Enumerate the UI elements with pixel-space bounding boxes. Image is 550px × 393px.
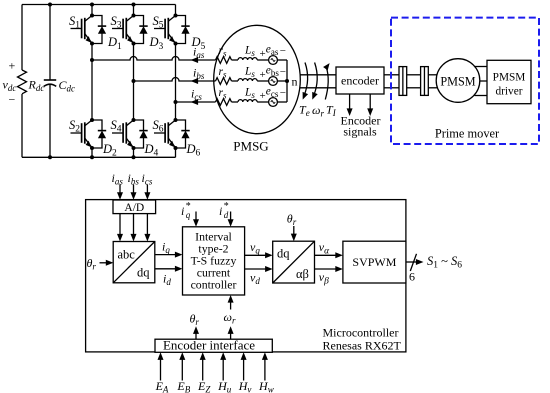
source e_as [260, 44, 287, 65]
signal i_q to controller [155, 240, 183, 258]
svg-text:+: + [260, 48, 266, 60]
box interval type-2 T-S fuzzy current controller [183, 227, 245, 295]
node leg 1 bottom rail junction [90, 155, 94, 159]
svg-text:−: − [280, 66, 286, 78]
svg-text:Prime mover: Prime mover [435, 127, 500, 141]
encoder box [336, 67, 384, 94]
svg-text:encoder: encoder [341, 74, 379, 88]
inductor L_s phase b [238, 66, 257, 81]
signal omega_r from encoder interface to controller [224, 295, 236, 339]
node emitter junction of S1 [90, 42, 94, 46]
signal i_d to controller [155, 266, 183, 287]
wire shaft encoder to coupling [384, 75, 399, 88]
signal i_d reference arrow [219, 201, 234, 227]
svg-text:+: + [9, 59, 16, 73]
node emitter junction of S2 [90, 146, 94, 150]
node emitter junction of S5 [174, 42, 178, 46]
wire encoder signal line 2 [367, 94, 373, 116]
transistor S6 [153, 118, 176, 147]
svg-text:controller: controller [191, 277, 237, 291]
resistor r_s phase a [216, 45, 232, 63]
svg-text:abc: abc [118, 248, 136, 262]
source e_bs [260, 65, 287, 86]
signal H_w encoder input [258, 352, 274, 393]
diode D5 [176, 16, 206, 52]
box Encoder interface [155, 338, 272, 353]
node collector junction of S1 [90, 14, 94, 18]
wire PMSM to driver middle [480, 80, 488, 82]
rotation arc load torque T_l [323, 63, 337, 118]
wire PMSM to driver upper [475, 66, 487, 68]
svg-text:+: + [260, 69, 266, 81]
wire shaft between couplings [407, 75, 421, 88]
wire dc top rail [22, 4, 176, 6]
wire A/D to abc-dq at x=133.5 [131, 214, 137, 242]
node leg 2 bottom rail junction [132, 155, 136, 159]
rotation arc speed omega_r [312, 63, 324, 119]
diode D1 [92, 16, 122, 52]
generator PMSG stator boundary [214, 25, 301, 153]
resistor r_s phase c [216, 87, 232, 105]
signal i_q reference arrow [181, 201, 199, 227]
svg-text:dq: dq [277, 247, 290, 261]
svg-text:PMSG: PMSG [233, 139, 268, 154]
wire PMSM to driver lower [474, 95, 487, 97]
voltage label v_dc with polarity [3, 59, 17, 107]
wire L_s to source phase c [257, 101, 269, 103]
svg-text:PMSM: PMSM [440, 74, 475, 88]
svg-text:signals: signals [343, 125, 377, 139]
resistor R_dc [18, 5, 45, 158]
current arrow i_as [191, 45, 205, 64]
signal v_alpha to SVPWM [315, 240, 343, 258]
wire neutral bus [286, 60, 288, 102]
wire phase b output line [134, 78, 216, 81]
wire source to neutral bus phase b [277, 80, 287, 82]
signal i_bs input arrow [128, 171, 140, 200]
wire dc bottom rail [22, 156, 176, 158]
diode D2 [92, 120, 117, 159]
svg-text:SVPWM: SVPWM [352, 255, 396, 269]
signal E_A encoder input [155, 352, 169, 393]
svg-text:*: * [186, 201, 191, 212]
node collector junction of S2 [90, 118, 94, 122]
box SVPWM [343, 241, 406, 283]
wire A/D to abc-dq at x=147.4 [144, 214, 150, 242]
node collector junction of S4 [132, 118, 136, 122]
transistor S5 [153, 14, 176, 43]
wire r_s to L_s phase a [232, 59, 239, 61]
node emitter junction of S6 [174, 146, 178, 150]
svg-text:+: + [260, 90, 266, 102]
svg-text:6: 6 [409, 270, 415, 284]
node n neutral [285, 75, 298, 89]
transistor S2 [69, 118, 92, 147]
signal i_cs input arrow [142, 171, 153, 200]
current arrow i_bs [191, 66, 205, 85]
wire source to neutral bus phase c [277, 101, 287, 103]
box PMSM driver [487, 60, 531, 103]
svg-text:n: n [292, 75, 298, 89]
wire source to neutral bus phase a [277, 59, 287, 61]
svg-text:driver: driver [496, 86, 523, 98]
current arrow i_cs [191, 87, 203, 106]
signal v_beta to SVPWM [315, 266, 343, 286]
signal E_Z encoder input [197, 352, 211, 393]
motor PMSM [436, 59, 480, 103]
node phase b tap [132, 79, 136, 83]
svg-text:−: − [9, 93, 16, 107]
signal v_q to dq-ab [245, 240, 273, 258]
node collector junction of S5 [174, 14, 178, 18]
svg-text:i: i [181, 204, 184, 218]
signal theta_r into abc-dq [87, 256, 114, 272]
signal theta_r from encoder interface [190, 312, 200, 340]
node collector junction of S6 [174, 118, 178, 122]
node phase c tap [174, 100, 178, 104]
node emitter junction of S3 [132, 42, 136, 46]
svg-text:−: − [280, 45, 286, 57]
svg-text:*: * [224, 201, 229, 212]
signal H_v encoder input [238, 352, 252, 393]
dashed box Prime mover [391, 18, 539, 144]
transistor S4 [111, 118, 134, 147]
wire r_s to L_s phase c [232, 101, 239, 103]
label Microcontroller Renesas RX62T [323, 325, 402, 352]
svg-text:Encoder interface: Encoder interface [163, 338, 255, 353]
signal E_B encoder input [176, 352, 190, 393]
wire shaft PMSG to encoder [300, 75, 337, 88]
wire L_s to source phase a [257, 59, 269, 61]
svg-text:Renesas RX62T: Renesas RX62T [323, 339, 402, 353]
svg-text:dq: dq [137, 266, 150, 280]
rotation arc torque T_e [299, 63, 310, 119]
wire encoder signal line 1 [347, 94, 353, 116]
box A/D converter [113, 200, 156, 214]
node collector junction of S3 [132, 14, 136, 18]
box abc to dq transform [113, 242, 155, 283]
svg-text:−: − [280, 87, 286, 99]
diode D3 [134, 16, 164, 52]
svg-text:PMSM: PMSM [493, 72, 526, 84]
wire phase c output line [176, 101, 216, 103]
signal i_as input arrow [112, 171, 124, 200]
transistor S3 [111, 14, 134, 43]
inductor L_s phase a [238, 45, 257, 60]
diode D4 [134, 120, 159, 159]
label Encoder signals [341, 113, 381, 138]
wire phase a output line [92, 57, 216, 60]
node capacitor bottom junction [48, 155, 52, 159]
svg-text:Microcontroller: Microcontroller [323, 325, 399, 339]
node phase a tap [90, 58, 94, 62]
svg-text:αβ: αβ [296, 267, 309, 281]
wire r_s to L_s phase b [232, 80, 239, 82]
coupling 1 [399, 67, 407, 96]
wire inverter leg 2 [133, 5, 135, 158]
source e_cs [260, 86, 287, 107]
svg-text:i: i [219, 204, 222, 218]
node leg 1 top rail junction [90, 3, 94, 7]
wire shaft coupling to PMSM [428, 75, 438, 88]
box dq to alpha-beta transform [273, 241, 315, 283]
wire L_s to source phase b [257, 80, 269, 82]
node capacitor top junction [48, 3, 52, 7]
resistor r_s phase b [216, 66, 232, 84]
svg-text:A/D: A/D [124, 202, 144, 214]
box Microcontroller outline [86, 200, 406, 352]
diode D6 [176, 120, 201, 159]
signal gate outputs S1-S6 [406, 254, 462, 284]
signal theta_r into dq-ab [287, 212, 297, 242]
signal H_u encoder input [217, 352, 232, 393]
wire inverter leg 3 [175, 5, 177, 158]
wire inverter leg 1 [91, 5, 93, 158]
node leg 2 top rail junction [132, 3, 136, 7]
coupling 2 [421, 67, 429, 96]
node emitter junction of S4 [132, 146, 136, 150]
inductor L_s phase c [238, 87, 257, 102]
transistor S1 [69, 14, 92, 43]
signal v_d to dq-ab [245, 266, 273, 286]
wire A/D to abc-dq at x=120 [117, 214, 123, 242]
capacitor C_dc [44, 5, 75, 158]
